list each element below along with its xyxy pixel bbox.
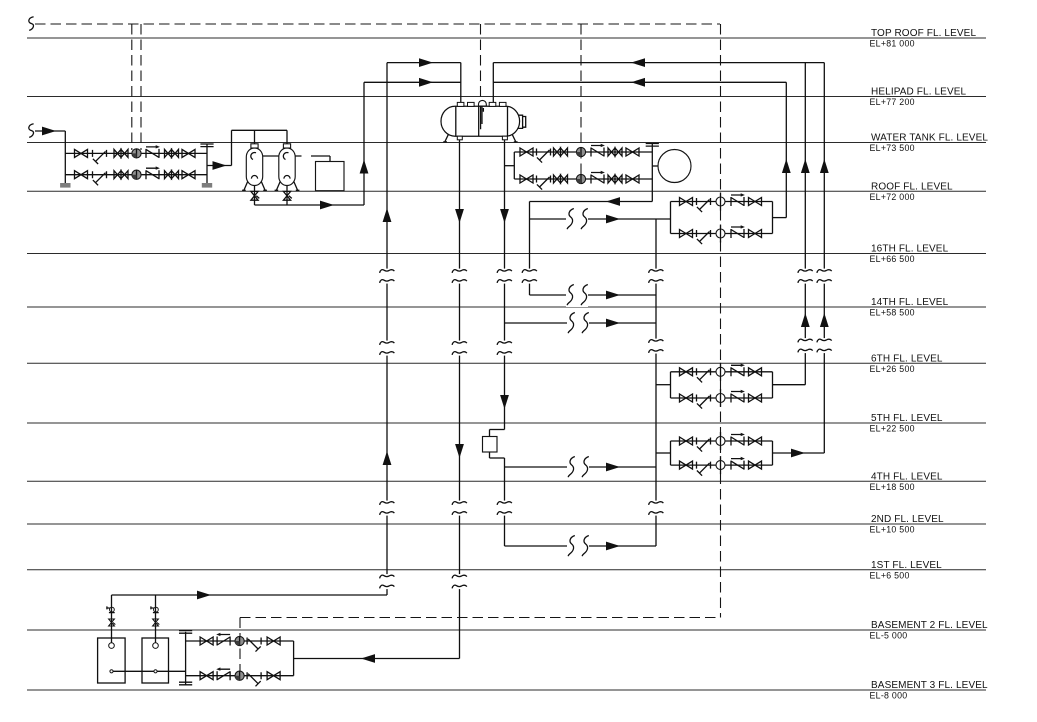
strainer [93,171,107,185]
svg-text:16TH FL. LEVEL: 16TH FL. LEVEL [871,244,949,255]
BP branch 2 pipe [514,178,652,180]
flow arrow recirculation riser [360,160,369,174]
left header pipe TP station [64,131,66,187]
vessel V2 drain pipe [286,183,288,205]
PRV3 branch 1 pipe [671,440,773,442]
gate valve 2 [749,230,762,238]
flexible connector [731,457,745,470]
gate valve [680,198,693,206]
gate valve [680,368,693,376]
tank foot right [502,136,507,140]
PRV3 left header pipe [670,441,672,465]
svg-text:14TH FL. LEVEL: 14TH FL. LEVEL [871,297,949,308]
floor line 2ND FL. LEVEL [27,523,986,525]
riser R5 pipe [655,219,657,546]
PRV2 outlet pipe [773,384,806,386]
pipe break 16th branch [566,283,588,307]
gate valve 2 [749,437,762,445]
control drop to pump P1/P2 (left) second [140,24,142,150]
TK2 isolation valve [153,619,160,626]
flow arrow riser R7 up lo [801,313,810,327]
pump [132,170,141,179]
gate valve 2 [626,175,639,183]
tank nozzle N4 [499,102,506,106]
floor line 6TH FL. LEVEL [27,362,986,364]
tank TK1 riser pipe [111,595,113,643]
flow arrow roof branch [606,215,620,224]
vessel V2 drain valve [283,191,291,200]
strainer [697,368,711,382]
flow arrow PRV3 outlet [791,449,805,458]
svg-text:EL-8 000: EL-8 000 [870,691,908,701]
tank nozzle N1 [457,102,464,106]
gate valve 2 [182,171,195,179]
tank equalizing pipe [112,670,186,672]
pipe break riser R5 2nd [646,501,667,516]
svg-text:BASEMENT 3 FL. LEVEL: BASEMENT 3 FL. LEVEL [871,680,988,691]
svg-text:EL+73 500: EL+73 500 [870,143,915,153]
flow arrow TF suction run [361,654,375,663]
vessel V1 drain pipe [254,183,256,205]
gate valve [200,672,213,680]
flow arrow line A [419,58,433,67]
svg-text:EL+81 000: EL+81 000 [870,39,915,49]
flexible connector [731,364,745,377]
tank internal dip pipe [481,106,484,129]
pressure reducing valve [716,363,725,381]
control run basement (dashed) [240,617,721,619]
svg-text:EL-5 000: EL-5 000 [870,631,908,641]
roof water storage tank [441,106,520,136]
PRV2 right header pipe [772,372,774,398]
control drop to roof tank level sensor [480,24,482,100]
PRV3 left connect pipe [656,452,671,454]
floor line BASEMENT 3 FL. LEVEL [27,689,986,691]
flexible connector [731,390,745,403]
gate valve 2 [267,637,280,645]
floor line TOP ROOF FL. LEVEL [27,37,986,39]
TP branch 2 pipe [65,174,207,176]
pipe break riser R1 1st [377,574,398,589]
TF left header bottom cap [179,682,192,685]
PRV3 outlet pipe [773,452,825,454]
PRV3 branch 2 pipe [671,464,773,466]
pipe break riser R1 14th [377,341,398,356]
check valve [554,175,568,183]
gate valve 2 [749,394,762,402]
gate valve [680,230,693,238]
floor line WATER TANK FL. LEVEL [27,142,986,144]
vessel feed header pipe [232,129,288,131]
pipe break riser R1 2nd [377,501,398,516]
pipe break riser R1 16th [377,269,398,284]
gate valve [75,149,88,157]
svg-text:ROOF FL. LEVEL: ROOF FL. LEVEL [871,182,953,193]
BP discharge run pipe [530,201,653,203]
check valve 2 [608,148,622,156]
pipe break riser DN1 14th [449,341,470,356]
check valve [554,148,568,156]
flexible connector [731,225,745,238]
svg-text:EL+22 500: EL+22 500 [870,424,915,434]
tank nozzle N2 [468,102,475,106]
pipe break riser DN1 2nd [449,501,470,516]
flexible connector [591,171,605,184]
TF left header pipe [185,632,187,685]
PRV2 left header pipe [670,372,672,398]
TK2 float valve [151,606,159,612]
TP discharge pipe [207,165,232,167]
flow arrow 4th branch [606,463,620,472]
flexible connector [731,433,745,446]
gravity down riser DN2 upper [504,137,506,430]
riser DN2 lower pipe [504,458,506,546]
PRV2 branch 2 pipe [671,397,773,399]
water meter [483,437,498,453]
check valve 2 [608,175,622,183]
PRV1 branch 1 pipe [671,201,773,203]
gravity down riser DN1 [459,137,461,659]
TF left header top cap [179,631,192,634]
pipe break riser DN1 1st [449,574,470,589]
14th floor branch pipe [505,322,657,324]
PRV2 branch 1 pipe [671,371,773,373]
break symbol at control bus start [29,17,34,31]
flow arrow riser R8 up lo [820,313,829,327]
tank right nozzle [518,115,526,128]
strainer [247,672,261,686]
floor line ROOF FL. LEVEL [27,190,986,192]
roof distribution branch pipe [530,218,671,220]
pump [576,147,585,156]
BP right header top cap [646,144,659,147]
gate valve 2 [749,461,762,469]
flexible connector [731,193,745,206]
tank manhole dome [478,100,486,106]
strainer [697,462,711,476]
svg-text:WATER TANK FL. LEVEL: WATER TANK FL. LEVEL [871,133,988,144]
pipe break riser R8 16th [814,269,835,284]
suction header inlet pipe [35,130,65,132]
flow arrow riser DN2 down2 [500,395,509,409]
strainer [697,230,711,244]
vessel V1 drain valve [251,191,259,200]
gate valve [520,148,533,156]
control riser to basement (dashed) [720,24,722,618]
TF suction run pipe [294,658,460,660]
floor line HELIPAD FL. LEVEL [27,96,986,98]
tank T3 inlet drop [329,156,331,162]
strainer [537,149,551,163]
gate valve 2 [182,149,195,157]
bladder tank stub pipe [652,165,658,167]
flexible connector [591,144,605,157]
flow arrow tank outlet header [197,591,211,600]
gate valve [680,394,693,402]
tank nozzle N3 [489,102,496,106]
svg-text:1ST FL. LEVEL: 1ST FL. LEVEL [871,560,942,571]
floor line 1ST FL. LEVEL [27,569,986,571]
tank fill line B [364,81,461,83]
flexible connector [216,633,230,646]
PRV1 right header pipe [772,202,774,234]
TK1 isolation valve [109,619,116,626]
svg-text:EL+26 500: EL+26 500 [870,364,915,374]
basement tank TK1 [98,638,126,683]
gate valve [680,437,693,445]
svg-text:4TH FL. LEVEL: 4TH FL. LEVEL [871,472,943,483]
flow arrow riser R8 up hi [820,159,829,173]
tank leg right [512,135,517,142]
PRV2 left connect pipe [656,384,671,386]
svg-text:EL+6 500: EL+6 500 [870,570,910,580]
inlet break symbol [29,124,34,138]
vessel outlet pipe segment 2 [311,155,330,157]
booster suction pipe [505,165,515,167]
flexible connector [216,667,230,680]
left header bottom anchor [60,183,70,188]
tank inlet drop right nozzle [492,63,494,102]
TP discharge riser [231,130,233,165]
basement tank TK2 [142,638,169,683]
pipe break discharge drop [519,269,540,284]
strainer [697,395,711,409]
svg-text:TOP ROOF FL. LEVEL: TOP ROOF FL. LEVEL [871,28,976,39]
flow arrow riser DN1 down2 [455,444,464,458]
floor line BASEMENT 2 FL. LEVEL [27,629,986,631]
pressure reducing valve [716,193,725,211]
pipe break 4th branch [567,455,589,479]
pump [235,671,244,680]
BP right header pipe [651,144,653,202]
svg-text:2ND FL. LEVEL: 2ND FL. LEVEL [871,514,944,525]
pipe break riser R8 14th [814,338,835,353]
pipe break riser DN1 16th [449,269,470,284]
basement tank outlet header [112,594,388,596]
strainer [697,438,711,452]
main fill riser pipe [386,63,388,595]
strainer [247,638,261,652]
pipe break 14th branch [567,311,589,335]
pump [576,174,585,183]
strainer [697,198,711,212]
pressure reducing valve [716,389,725,407]
flow arrow 16th branch [606,291,620,300]
svg-text:EL+72 000: EL+72 000 [870,192,915,202]
flexible connector [146,166,160,179]
meter outlet drop [489,452,491,458]
2nd floor branch pipe [505,545,657,547]
TK2 inlet connection circle [153,643,159,649]
recirculation riser pipe [363,82,365,205]
vessel V1 inlet drop [254,130,256,148]
flexible connector [146,145,160,158]
flow arrow riser R1 up1 [383,208,392,222]
TK2 outlet dot [154,670,157,673]
gate valve [200,637,213,645]
pipe break roof branch [566,207,588,231]
PRV1 left header pipe [670,202,672,234]
pump [132,149,141,158]
svg-text:EL+58 500: EL+58 500 [870,308,915,318]
right header top cap [200,144,213,147]
flow arrow riser R6 up [782,159,791,173]
control drop to pump P1/P2 (left) [131,24,133,150]
check valve 2 [165,149,179,157]
pressure reducing valve [716,456,725,474]
PRV1 outlet pipe [773,217,787,219]
flow arrow BP discharge [606,197,620,206]
BP branch 1 pipe [514,151,652,153]
flow arrow line B [419,78,433,87]
svg-text:6TH FL. LEVEL: 6TH FL. LEVEL [871,354,943,365]
pipe break riser DN2 2nd [494,501,515,516]
flow arrow TP discharge [213,161,227,170]
pipe break 2nd branch [567,534,589,558]
vessel V2 inlet drop [286,130,288,148]
floor line 16TH FL. LEVEL [27,253,986,255]
right header bottom anchor [202,183,212,188]
pipe break riser DN2 14th [494,341,515,356]
flow arrow line C [631,58,645,67]
meter bypass jog upper [490,429,505,431]
svg-text:5TH FL. LEVEL: 5TH FL. LEVEL [871,413,943,424]
chemical tank T3 [316,162,345,191]
riser R8 pipe [823,63,825,453]
tank return line D [493,81,786,83]
tank TK2 riser pipe [155,595,157,643]
flow arrow line D [631,78,645,87]
check valve [114,171,128,179]
pipe break riser DN2 16th [494,269,515,284]
strainer [537,176,551,190]
floor line 14TH FL. LEVEL [27,306,986,308]
4th floor branch pipe [505,466,657,468]
meter bypass jog lower [490,457,505,459]
flow arrow riser DN1 down1 [455,209,464,223]
pressure vessel V1 [242,144,267,191]
flow arrow drain header [320,201,334,210]
control drop to transfer pumps [239,618,241,676]
pipe break riser R7 14th [795,338,816,353]
tank return line C [493,62,824,64]
flow arrow riser R1 up2 [383,451,392,465]
16th floor branch pipe [530,294,657,296]
gate valve 2 [749,368,762,376]
gate valve 2 [267,672,280,680]
flow arrow inlet [42,127,56,136]
TF branch 1 pipe [186,640,294,642]
gate valve [520,175,533,183]
tank leg left [443,135,448,142]
BP left header pipe [513,152,515,179]
riser R6 pipe [785,82,787,217]
flow arrow riser DN2 down1 [500,209,509,223]
check valve [114,149,128,157]
flow arrow 14th branch [606,319,620,328]
hydro-pneumatic tank [658,150,691,183]
pipe break riser R5 16th [646,269,667,284]
gate valve [680,461,693,469]
gate valve [75,171,88,179]
TP right header pipe [206,144,208,187]
pressure vessel V2 [275,144,300,191]
check valve 2 [165,171,179,179]
pressure reducing valve [716,225,725,243]
TP branch 1 pipe [65,152,207,154]
tank inlet drop left nozzle [460,63,462,102]
floor line 4TH FL. LEVEL [27,480,986,482]
control signal bus (dashed) top [35,23,720,25]
pump [235,636,244,645]
TF branch 2 pipe [186,675,294,677]
tank fill line A [387,62,461,64]
svg-text:EL+77 200: EL+77 200 [870,97,915,107]
BP discharge drop pipe [529,202,531,296]
PRV3 right header pipe [772,441,774,465]
tank foot left [457,136,462,140]
vessel drain header pipe [255,204,365,206]
pressure reducing valve [716,432,725,450]
gate valve 2 [749,198,762,206]
svg-text:BASEMENT 2 FL. LEVEL: BASEMENT 2 FL. LEVEL [871,620,988,631]
svg-text:EL+10 500: EL+10 500 [870,525,915,535]
gate valve 2 [626,148,639,156]
TK1 inlet connection circle [109,643,115,649]
svg-text:EL+18 500: EL+18 500 [870,482,915,492]
PRV1 branch 2 pipe [671,233,773,235]
floor line 5TH FL. LEVEL [27,422,986,424]
meter inlet drop [489,430,491,437]
TF right header pipe [293,641,295,676]
flow arrow riser R7 up hi [801,159,810,173]
flow arrow 2nd branch [606,542,620,551]
control drop to booster pumps [580,24,582,179]
pipe break riser R5 14th [646,339,667,354]
TK1 outlet dot [110,670,113,673]
riser R7 pipe [804,63,806,385]
svg-text:EL+66 500: EL+66 500 [870,254,915,264]
vessel outlet pipe to tank T3 [255,155,302,157]
TK1 float valve [107,606,115,612]
pipe break riser R7 16th [795,269,816,284]
svg-text:HELIPAD FL. LEVEL: HELIPAD FL. LEVEL [871,87,967,98]
strainer [93,150,107,164]
